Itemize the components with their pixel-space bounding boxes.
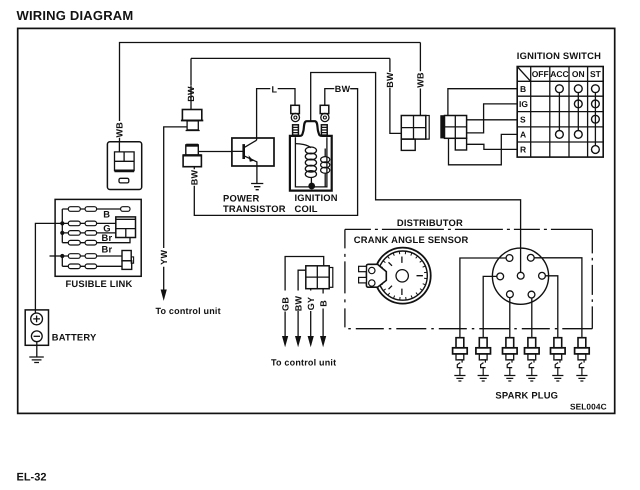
plug wire 6 — [534, 258, 582, 338]
connector pair lower (BW to transistor base) — [186, 144, 198, 147]
distributor cap — [492, 248, 548, 304]
svg-text:ACC: ACC — [550, 69, 568, 79]
svg-text:GB: GB — [280, 297, 290, 311]
wire A: switch row A loop to connector bottom — [449, 134, 518, 164]
control unit connector (EGI harness) grid — [306, 266, 329, 289]
arrow to control unit (YW) — [161, 290, 167, 301]
svg-text:GY: GY — [306, 297, 316, 311]
connector (battery WB) thick base — [115, 169, 135, 172]
battery - terminal — [31, 331, 42, 342]
plug wire 5 — [545, 276, 557, 338]
coil junction dot — [308, 183, 315, 190]
mid connector (harness plug) grid — [401, 116, 426, 140]
spark plug at x=459.9 — [453, 338, 468, 381]
svg-text:BW: BW — [385, 72, 395, 88]
wire BW below lower connector down and around (loop) — [194, 89, 357, 216]
svg-text:To control unit: To control unit — [156, 306, 221, 316]
wire WB drop into mid connector (gap for label) — [419, 43, 421, 116]
battery box — [25, 310, 48, 345]
battery + terminal — [31, 313, 43, 325]
svg-text:WB: WB — [416, 72, 426, 88]
fusible link bus 1 — [61, 209, 63, 243]
fuse row 6 — [62, 265, 122, 267]
switch contact links — [559, 93, 595, 146]
svg-text:SEL004C: SEL004C — [570, 402, 607, 412]
svg-text:ST: ST — [590, 69, 602, 79]
arrows to control unit — [282, 336, 288, 347]
ignition coil body — [290, 121, 332, 190]
svg-text:B: B — [103, 209, 110, 220]
svg-text:EL-32: EL-32 — [17, 472, 47, 484]
coil secondary winding — [321, 157, 330, 174]
coil terminal ring L side — [291, 113, 299, 121]
ignition switch table grid — [517, 67, 603, 158]
spark plug at x=531.8 — [525, 338, 540, 381]
fuse row 2 — [62, 222, 116, 224]
svg-text:BW: BW — [186, 86, 196, 102]
wire GY — [310, 289, 312, 337]
table diagonal — [518, 67, 531, 81]
svg-text:DISTRIBUTOR: DISTRIBUTOR — [397, 217, 463, 228]
svg-text:IG: IG — [519, 99, 528, 109]
ignition switch connector grid — [445, 116, 467, 139]
svg-text:BATTERY: BATTERY — [52, 331, 97, 342]
cap center terminal — [517, 272, 524, 279]
fuse row 4 — [62, 238, 130, 243]
wire connector to transistor base — [198, 151, 232, 153]
wire IG: connector to switch row IG — [467, 104, 518, 133]
spark plug at x=557.8 — [551, 338, 566, 381]
mid connector right bar — [426, 116, 429, 140]
fusible link big connector — [116, 217, 136, 238]
distributor boundary box (dash-dot) — [345, 228, 592, 230]
svg-text:POWER: POWER — [223, 193, 259, 204]
wire BW: coil right terminal — [325, 89, 358, 106]
fusible link bus 2 — [61, 256, 63, 266]
main border frame — [18, 28, 615, 413]
mid connector lower tab — [401, 139, 415, 150]
wire WB: battery connector to mid connector (top run) — [120, 43, 421, 142]
svg-text:COIL: COIL — [295, 203, 318, 214]
transistor emitter ground — [256, 166, 258, 183]
crank angle sensor prongs — [359, 266, 367, 271]
svg-text:YW: YW — [159, 250, 169, 265]
transistor symbol — [242, 144, 245, 159]
wire YW from connector to control unit — [164, 127, 187, 290]
plug wire 2 — [483, 276, 497, 337]
crank angle sensor body — [375, 248, 431, 304]
svg-text:R: R — [520, 145, 526, 155]
coil primary winding — [295, 144, 311, 148]
wire R: connector tab to switch row R — [467, 144, 518, 149]
svg-text:IGNITION SWITCH: IGNITION SWITCH — [517, 50, 601, 61]
crank angle sensor connector body — [366, 264, 386, 287]
wire high tension: coil tower to distributor cap — [311, 73, 521, 273]
connector (battery WB) inner cells — [115, 142, 135, 171]
svg-text:L: L — [272, 84, 278, 94]
svg-text:Br: Br — [102, 243, 113, 254]
svg-text:OFF: OFF — [532, 69, 549, 79]
wire BW (to control unit) — [298, 270, 306, 336]
battery ground — [36, 342, 38, 357]
svg-text:BW: BW — [293, 296, 303, 312]
ignition switch connector lower tab — [455, 138, 466, 150]
svg-text:WB: WB — [115, 122, 125, 138]
spark plug at x=581.9 — [575, 338, 590, 381]
svg-text:WIRING DIAGRAM: WIRING DIAGRAM — [17, 8, 134, 23]
fuse row 3 — [62, 232, 116, 234]
fusible link box — [55, 199, 141, 276]
crank angle sensor tooth ring — [378, 251, 427, 300]
spark plug at x=509.8 — [503, 338, 518, 381]
svg-text:S: S — [520, 114, 526, 124]
coil inner wires — [295, 137, 327, 187]
svg-text:To control unit: To control unit — [271, 357, 336, 367]
connector (battery WB) outer box — [107, 142, 141, 190]
svg-text:IGNITION: IGNITION — [295, 192, 338, 203]
wire GB — [285, 257, 324, 337]
svg-text:FUSIBLE LINK: FUSIBLE LINK — [66, 278, 133, 289]
coil threaded terminal right — [321, 125, 327, 135]
plug wire 4 — [531, 298, 533, 338]
svg-text:BW: BW — [335, 84, 351, 94]
cap terminals — [497, 254, 546, 298]
wire from battery + to bus junction — [35, 223, 62, 313]
connector (battery WB) lower tab — [119, 178, 129, 183]
coil terminal ring BW side — [321, 113, 329, 121]
coil terminal connector L side — [291, 105, 300, 113]
svg-text:A: A — [520, 130, 526, 140]
svg-text:BW: BW — [190, 170, 200, 186]
crank angle sensor center hole — [396, 270, 408, 282]
svg-text:CRANK ANGLE SENSOR: CRANK ANGLE SENSOR — [354, 234, 469, 245]
wire BW loop top: connector to mid connector — [191, 58, 401, 133]
plug wire 1 — [460, 258, 506, 338]
wire S: connector to switch row S — [467, 119, 518, 121]
junction dots — [60, 221, 64, 225]
fuse row 1 — [62, 208, 120, 210]
fuse row 5 — [62, 255, 122, 257]
wire B (to control unit) — [322, 289, 324, 337]
coil threaded terminal left — [293, 125, 299, 135]
svg-text:Br: Br — [102, 232, 113, 243]
control unit connector right bar — [329, 268, 333, 288]
fusible link small connector — [122, 251, 131, 261]
svg-text:ON: ON — [572, 69, 585, 79]
svg-text:TRANSISTOR: TRANSISTOR — [223, 203, 286, 214]
svg-text:B: B — [318, 300, 328, 307]
wire L: transistor collector to coil terminal — [257, 89, 295, 141]
svg-text:B: B — [520, 84, 526, 94]
coil terminal connector BW side — [320, 105, 329, 113]
spark plug at x=483.2 — [476, 338, 491, 381]
switch contact circles — [556, 85, 600, 154]
ignition switch connector black bar — [440, 115, 444, 138]
svg-text:SPARK PLUG: SPARK PLUG — [495, 389, 558, 400]
crank angle sensor index marks — [389, 257, 423, 296]
connector pair upper (BW to coil circuit) — [190, 102, 192, 110]
power transistor Q1 box — [232, 138, 274, 166]
wire stub row5 — [50, 255, 63, 257]
wire B: connector to switch row B — [448, 89, 517, 116]
plug wire 3 — [509, 298, 511, 338]
